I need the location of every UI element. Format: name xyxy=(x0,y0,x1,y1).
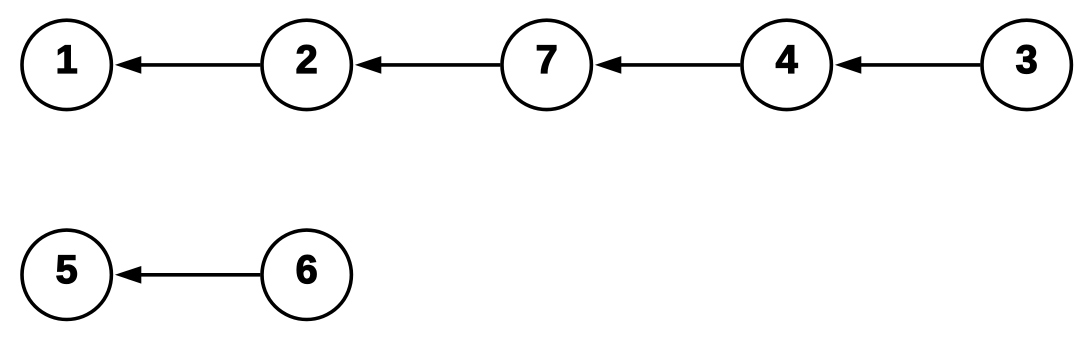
svg-text:3: 3 xyxy=(1016,38,1038,82)
svg-text:2: 2 xyxy=(296,38,318,82)
svg-text:4: 4 xyxy=(776,38,798,82)
svg-text:6: 6 xyxy=(296,248,318,292)
svg-text:7: 7 xyxy=(536,38,558,82)
svg-text:1: 1 xyxy=(56,38,78,82)
svg-text:5: 5 xyxy=(56,248,78,292)
